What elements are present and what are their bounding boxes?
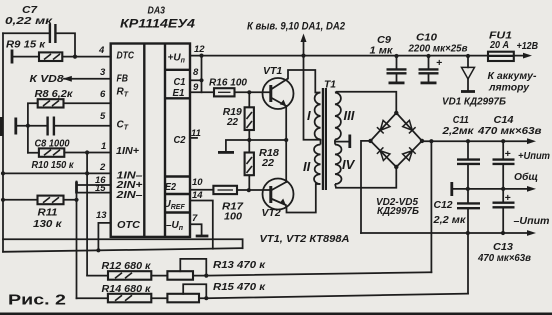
svg-text:4: 4 [98,45,105,56]
svg-text:КД2997Б: КД2997Б [377,205,420,217]
svg-text:R16 100: R16 100 [209,77,247,89]
svg-text:0,22 мк: 0,22 мк [5,15,53,27]
svg-text:2200 мк×25в: 2200 мк×25в [408,43,469,55]
svg-text:15: 15 [95,183,106,194]
svg-text:100: 100 [224,211,242,223]
svg-text:13: 13 [96,210,107,221]
svg-text:С12: С12 [434,199,453,211]
svg-text:1 мк: 1 мк [370,45,394,57]
svg-text:9: 9 [193,82,199,93]
svg-text:Рис. 2: Рис. 2 [8,292,66,309]
svg-text:14: 14 [192,190,203,201]
svg-text:R9 15 к: R9 15 к [6,39,46,51]
svg-text:1: 1 [101,141,106,152]
svg-text:10: 10 [192,177,203,188]
svg-text:1IN+: 1IN+ [116,146,139,157]
svg-text:VT1, VT2 КТ898А: VT1, VT2 КТ898А [260,233,350,245]
svg-text:DTC: DTC [117,51,135,62]
svg-text:VD1 КД2997Б: VD1 КД2997Б [442,96,507,108]
svg-text:R11: R11 [38,207,58,219]
svg-text:E1: E1 [173,88,185,99]
svg-text:VT1: VT1 [263,65,282,77]
svg-text:22: 22 [261,157,274,169]
svg-text:6: 6 [100,89,106,100]
svg-text:R8 6,2к: R8 6,2к [35,88,74,100]
svg-text:С8 1000: С8 1000 [35,138,70,150]
svg-text:7: 7 [192,213,198,224]
svg-text:2: 2 [99,162,106,173]
svg-text:VT2: VT2 [262,207,281,219]
svg-text:К VD8: К VD8 [30,73,64,85]
svg-text:2,2 мк: 2,2 мк [432,214,466,226]
svg-text:C2: C2 [174,135,186,146]
svg-text:С13: С13 [493,241,513,253]
svg-text:2,2мк: 2,2мк [441,125,474,137]
svg-text:R10 150 к: R10 150 к [32,159,75,171]
svg-text:IV: IV [342,157,356,172]
svg-text:12: 12 [194,44,205,55]
svg-text:2IN–: 2IN– [115,190,143,201]
svg-text:+: + [505,192,511,204]
svg-text:Т1: Т1 [324,79,336,91]
svg-text:R12 680 к: R12 680 к [102,260,152,272]
svg-text:К выв. 9,10 DA1, DA2: К выв. 9,10 DA1, DA2 [247,21,345,33]
svg-text:5: 5 [100,111,106,122]
svg-text:+: + [436,57,442,69]
svg-text:470 мк×63в: 470 мк×63в [477,253,531,264]
svg-text:КР1114ЕУ4: КР1114ЕУ4 [120,17,195,31]
svg-text:+Uпит: +Uпит [518,150,550,162]
svg-text:R15 470 к: R15 470 к [213,281,266,293]
svg-text:11: 11 [191,128,201,139]
svg-text:E2: E2 [165,182,176,193]
svg-text:+: + [505,148,511,160]
svg-text:II: II [303,159,311,174]
svg-text:FB: FB [117,74,129,85]
svg-text:III: III [344,108,355,123]
svg-text:130 к: 130 к [33,218,62,230]
svg-text:К аккуму-: К аккуму- [488,70,537,82]
svg-text:20 А: 20 А [489,39,509,51]
svg-text:470 мк×63в: 470 мк×63в [477,125,542,137]
svg-text:–Uпит: –Uпит [514,215,550,227]
svg-text:OTC: OTC [117,220,141,231]
svg-text:DA3: DA3 [148,5,166,17]
svg-text:Общ: Общ [514,171,538,183]
svg-text:R14 680 к: R14 680 к [102,283,152,295]
svg-text:I: I [307,108,311,123]
svg-text:+12В: +12В [517,40,539,52]
svg-text:лятору: лятору [488,82,530,94]
svg-text:R13 470 к: R13 470 к [213,259,266,271]
svg-text:8: 8 [193,67,199,78]
svg-text:3: 3 [100,67,106,78]
svg-text:C1: C1 [174,77,186,88]
svg-text:22: 22 [226,116,238,128]
